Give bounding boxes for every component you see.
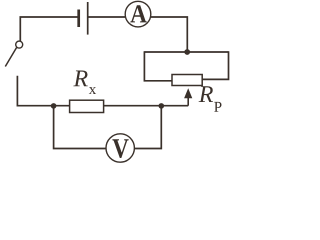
- wire Rx to slider stem: [104, 105, 189, 107]
- node junction left on bottom wire: [51, 103, 57, 109]
- battery negative plate (short thick): [77, 10, 80, 28]
- ammeter A body: [125, 1, 151, 27]
- wire voltmeter left branch: [54, 106, 107, 149]
- wire ammeter to right corner and down to rheostat top: [151, 17, 188, 52]
- voltmeter V body: [106, 134, 134, 162]
- resistor Rx box: [70, 100, 104, 112]
- rheostat RP slider stem: [187, 96, 189, 106]
- rheostat RP slider arrowhead: [184, 88, 192, 98]
- svg-text:R: R: [72, 66, 88, 92]
- svg-text:V: V: [112, 134, 129, 165]
- svg-text:A: A: [130, 0, 147, 28]
- wire rheostat top rail: [144, 51, 228, 53]
- wire rheostat left end down and to element: [144, 51, 172, 81]
- wire battery to ammeter: [89, 16, 126, 18]
- node junction on rheostat top rail: [184, 49, 190, 55]
- rheostat RP element box: [172, 75, 202, 86]
- svg-text:P: P: [214, 100, 222, 116]
- wire top-left from switch up to battery: [20, 17, 78, 41]
- node junction right on bottom wire: [159, 103, 165, 109]
- switch S lever blade: [5, 48, 16, 67]
- switch S (open) pivot contact: [16, 41, 23, 48]
- battery positive plate (long thin): [87, 2, 89, 35]
- wire bottom-left vertical from switch contact: [17, 76, 69, 106]
- svg-text:x: x: [89, 82, 97, 98]
- svg-text:R: R: [198, 82, 214, 108]
- wire voltmeter right branch: [134, 106, 161, 149]
- wire rheostat right end down and to element: [202, 51, 229, 79]
